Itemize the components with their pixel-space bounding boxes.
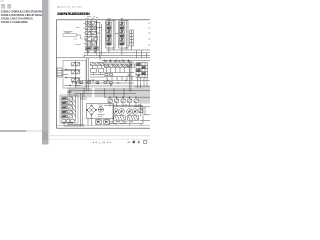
- dense valve row H: [104, 61, 134, 63]
- F valve cluster 2: [72, 71, 76, 74]
- F right vertical pair: [87, 58, 89, 91]
- small comps on wire band: [80, 82, 83, 84]
- pilot bank K row 1: [62, 97, 67, 100]
- pump group 1: [113, 109, 119, 115]
- bank A row 2: [86, 26, 91, 29]
- pilot bank K box: [60, 95, 78, 123]
- stack B content: [107, 22, 112, 25]
- tall stack C outer: [119, 21, 128, 48]
- vertical divider scrollbar: [42, 0, 48, 145]
- svg-text:1 / 16: 1 / 16: [99, 140, 106, 144]
- diagram frame: [57, 20, 151, 128]
- bottom-right valve row: [108, 99, 112, 102]
- gray block right lower: [139, 97, 151, 104]
- pilot bank K row 4: [62, 110, 67, 113]
- pump labels below: [109, 122, 133, 124]
- sidebar icon 1: [2, 4, 5, 8]
- bus junction dots: [104, 60, 105, 61]
- toolbar zoom box: [133, 141, 135, 143]
- middle wire band: [74, 81, 150, 87]
- stack gap connector: [115, 33, 119, 35]
- bank A row 4: [86, 42, 91, 45]
- bank A wide box: [85, 36, 98, 40]
- gray band right raised part: [134, 87, 150, 89]
- mid-left enclosure F: [63, 61, 86, 89]
- gray shaded band (tank region): [68, 88, 151, 97]
- pilot bank K riser: [75, 95, 77, 121]
- cluster under bank A: [84, 47, 86, 49]
- wires inside gray band: [70, 88, 150, 97]
- sidebar horizontal scrollbar track: [0, 130, 42, 132]
- left branch label + wire: [64, 32, 73, 33]
- toolbar top border: [48, 138, 150, 140]
- svg-text:ZX230LC CABIN WIRE: ZX230LC CABIN WIRE: [1, 20, 28, 24]
- narrow strip D: [130, 30, 133, 46]
- pump unit enclosure M: [113, 107, 143, 124]
- labels above upper-left bank: [86, 16, 99, 18]
- sidebar icon 2: [8, 4, 11, 8]
- bank A row 3: [86, 31, 91, 34]
- right dense cluster I: [136, 63, 148, 78]
- svg-text:ZX230LC RUN PEDAL CIRCUIT DIAG: ZX230LC RUN PEDAL CIRCUIT DIAGRA: [1, 13, 45, 17]
- bank A left stubs: [83, 23, 86, 43]
- pump drops: [116, 124, 141, 126]
- F center line + connectors: [62, 61, 81, 89]
- page bottom edge: [50, 135, 150, 137]
- svg-text:List: List: [0, 0, 4, 3]
- mid cluster G right of enclosure: [91, 63, 95, 66]
- svg-text:ZX140W HYDRAULIC CIRCUIT DIAGR: ZX140W HYDRAULIC CIRCUIT DIAGRAM: [57, 12, 90, 16]
- inner bottom frame line: [57, 124, 151, 126]
- pilot bank K exit wires: [64, 123, 84, 126]
- toolbar nav arrows: [93, 141, 112, 143]
- bank A verticals: [86, 20, 88, 56]
- bank A row 1: [86, 22, 91, 25]
- page left edge: [49, 0, 51, 136]
- tall stack B outer: [106, 21, 115, 48]
- vertical pair right of K: [81, 93, 83, 126]
- svg-text:Applied to Ser. No. 10402: Applied to Ser. No. 10402: [57, 5, 83, 8]
- pilot bank K row 2: [62, 101, 67, 104]
- gray stub left of pump box: [80, 97, 87, 100]
- toolbar zoom plus: [137, 141, 140, 144]
- F valve cluster 1: [72, 63, 76, 66]
- bus lines: [106, 49, 150, 51]
- bottom-right top wire: [104, 96, 150, 98]
- bank A right risers: [99, 22, 101, 58]
- pilot bank K bottom row: [62, 120, 65, 123]
- stack C top cap: [121, 18, 124, 20]
- pilot bank K row 5: [62, 115, 67, 118]
- gray band gap: [92, 88, 95, 97]
- small motor boxes below L: [96, 120, 102, 125]
- toolbar zoom minus: [128, 141, 131, 144]
- pump group 2: [127, 109, 133, 115]
- pump circle L: [98, 107, 103, 112]
- svg-text:ZX230LC MULTI HARNESS: ZX230LC MULTI HARNESS: [1, 17, 33, 21]
- right edge dots: [148, 22, 150, 46]
- bus drops: [109, 46, 147, 58]
- F valve cluster 3: [72, 79, 76, 82]
- sidebar horizontal scrollbar thumb: [0, 130, 26, 132]
- right side below gray block: [134, 104, 150, 117]
- pump box L: [87, 104, 114, 119]
- stack C content: [120, 22, 125, 25]
- pilot bank K top stem: [67, 90, 71, 96]
- wires below cluster I: [138, 78, 148, 89]
- toolbar fullscreen: [144, 141, 147, 144]
- stack B top cap: [108, 18, 111, 20]
- right vertical pair with side taps: [129, 61, 131, 92]
- pilot bank K row 3: [62, 106, 67, 109]
- svg-text:ZX230LC HYDRAULIC CIRCUIT DIAG: ZX230LC HYDRAULIC CIRCUIT DIAGRAM: [1, 10, 45, 14]
- F port box: [57, 68, 62, 77]
- rotary joint diamond: [87, 106, 96, 115]
- bank A bottom cluster: [86, 47, 92, 51]
